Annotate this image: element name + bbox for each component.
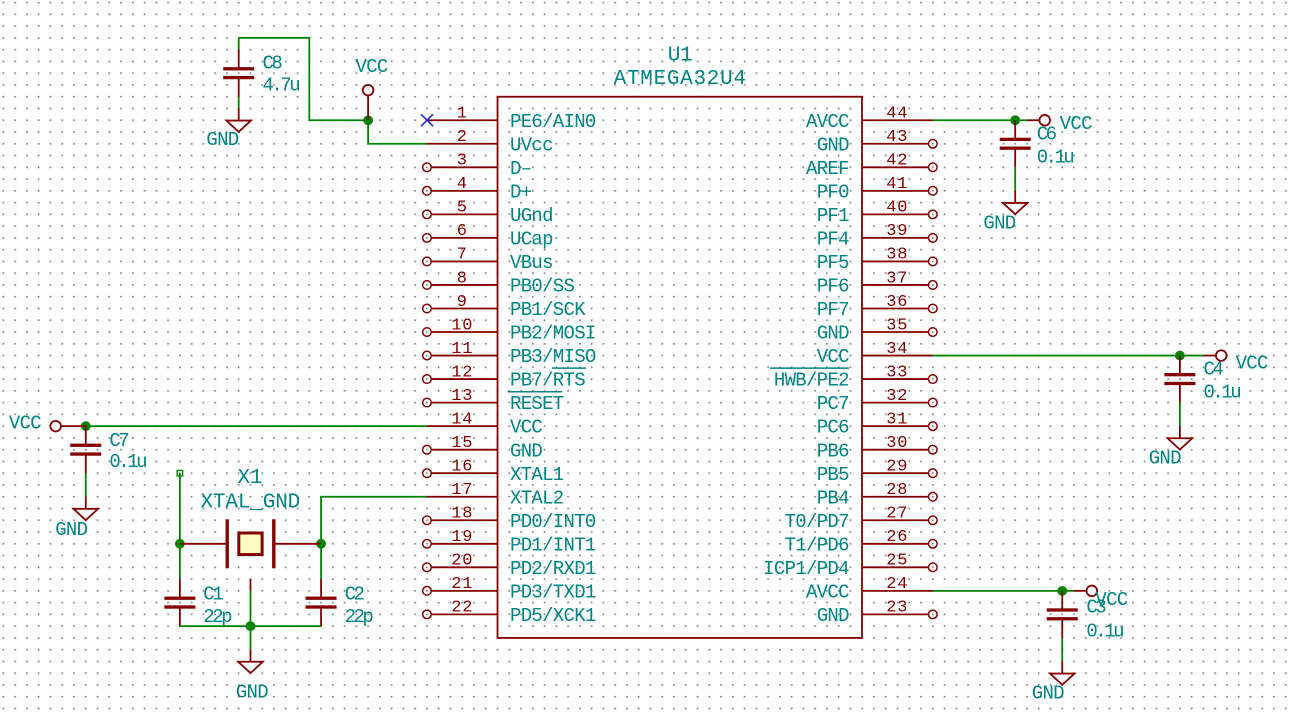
wire [180, 625, 321, 627]
svg-text:PE6/AIN0: PE6/AIN0 [510, 111, 596, 133]
capacitor C2 lead wire [320, 544, 322, 579]
svg-text:UGnd: UGnd [510, 205, 553, 227]
junction [363, 115, 373, 125]
svg-text:23: 23 [886, 599, 908, 618]
pin 20 PD2/RXD1 [423, 552, 596, 580]
label C3 value [1086, 597, 1123, 643]
svg-text:PB7/RTS: PB7/RTS [510, 370, 585, 392]
svg-text:UCap: UCap [510, 229, 553, 251]
pin 7 VBus [423, 246, 553, 274]
pin 23 GND [817, 599, 937, 627]
pin 3 D– [423, 152, 532, 180]
capacitor C6 [1000, 120, 1031, 167]
ground symbol below C3 [1032, 661, 1075, 704]
svg-text:VCC: VCC [817, 346, 849, 368]
svg-text:HWB/PE2: HWB/PE2 [774, 370, 849, 392]
svg-text:UVcc: UVcc [510, 134, 553, 156]
svg-text:PB3/MISO: PB3/MISO [510, 346, 596, 368]
svg-text:10: 10 [451, 316, 473, 335]
pin 30 PB6 [817, 434, 937, 462]
svg-text:26: 26 [886, 528, 908, 547]
junction [1010, 115, 1020, 125]
svg-text:ICP1/PD4: ICP1/PD4 [763, 558, 849, 580]
capacitor C7 [70, 426, 101, 473]
svg-text:PD3/TXD1: PD3/TXD1 [510, 581, 596, 603]
pin 10 PB2/MOSI [423, 316, 596, 344]
svg-text:PD2/RXD1: PD2/RXD1 [510, 558, 596, 580]
pin 27 T0/PD7 [785, 505, 938, 533]
op-amp U1 ATMEGA32U4 body [498, 44, 862, 638]
pin 13 RESET [423, 387, 564, 415]
pin 16 XTAL1 [423, 458, 564, 486]
svg-text:C7: C7 [109, 430, 128, 452]
svg-text:43: 43 [886, 128, 908, 147]
svg-text:T0/PD7: T0/PD7 [785, 511, 849, 533]
svg-text:PC6: PC6 [817, 417, 849, 439]
svg-text:PF5: PF5 [817, 252, 849, 274]
svg-text:AVCC: AVCC [806, 581, 849, 603]
svg-text:ATMEGA32U4: ATMEGA32U4 [614, 68, 747, 91]
wire [933, 355, 1204, 357]
pin 12 PB7/RTS [423, 363, 586, 391]
wire [933, 590, 1074, 592]
pin 29 PB5 [817, 458, 937, 486]
svg-text:XTAL2: XTAL2 [510, 487, 564, 509]
pin 28 PB4 [817, 481, 937, 509]
power symbol VCC near C7 [9, 413, 86, 435]
ground symbol below C4 [1149, 426, 1193, 469]
svg-text:GND: GND [817, 134, 849, 156]
wire crystal gnd pin down [249, 591, 251, 626]
svg-text:AVCC: AVCC [806, 111, 849, 133]
svg-text:6: 6 [457, 222, 468, 241]
svg-text:C2: C2 [345, 584, 365, 606]
ground symbol below C7 [55, 497, 98, 541]
svg-text:VBus: VBus [510, 252, 553, 274]
ground symbol below C8 [206, 108, 251, 151]
svg-text:XTAL_GND: XTAL_GND [200, 491, 300, 514]
power symbol VCC near C3 [1074, 586, 1128, 611]
svg-text:31: 31 [886, 410, 908, 429]
svg-text:AREF: AREF [806, 158, 849, 180]
wire C7 to GND [85, 473, 87, 497]
svg-text:VCC: VCC [356, 56, 388, 78]
svg-text:PF6: PF6 [817, 276, 849, 298]
ground symbol below C6 [983, 191, 1027, 235]
svg-text:VCC: VCC [9, 413, 41, 435]
svg-text:PB5: PB5 [817, 464, 849, 486]
svg-text:1: 1 [457, 105, 468, 124]
pin 35 GND [817, 316, 937, 344]
wire [933, 119, 1027, 121]
ground symbol below crystal [236, 650, 268, 704]
pin 31 PC6 [817, 410, 937, 438]
pin 17 XTAL2 [427, 481, 564, 509]
svg-text:32: 32 [886, 387, 908, 406]
pin 25 ICP1/PD4 [763, 552, 937, 580]
svg-text:20: 20 [451, 552, 473, 571]
pin 40 PF1 [817, 199, 937, 227]
svg-text:0.1u: 0.1u [1037, 147, 1074, 169]
crystal X1 XTAL_GND [180, 467, 321, 591]
svg-text:PB1/SCK: PB1/SCK [510, 299, 586, 321]
label C4 value [1204, 358, 1241, 403]
svg-text:0.1u: 0.1u [1204, 382, 1241, 404]
wire C8 to GND [238, 97, 240, 109]
svg-text:33: 33 [886, 363, 908, 382]
wire C3 to GND [1061, 638, 1063, 662]
pin 1 PE6/AIN0 [427, 105, 596, 133]
svg-text:35: 35 [886, 316, 908, 335]
svg-text:D–: D– [510, 158, 531, 180]
svg-text:8: 8 [457, 269, 468, 288]
svg-text:44: 44 [886, 105, 908, 124]
pin 34 VCC [817, 340, 933, 368]
svg-text:12: 12 [451, 363, 473, 382]
node wire C8 top lead [238, 38, 240, 50]
capacitor C3 [1047, 591, 1078, 638]
svg-text:XTAL1: XTAL1 [510, 464, 564, 486]
pin 44 AVCC [806, 105, 933, 133]
wire [239, 38, 368, 120]
wire C6 to GND [1014, 167, 1016, 191]
svg-text:VCC: VCC [1236, 352, 1268, 374]
pin 32 PC7 [817, 387, 937, 415]
svg-text:U1: U1 [668, 44, 693, 67]
junction [316, 539, 326, 549]
svg-text:5: 5 [457, 199, 468, 218]
svg-text:C6: C6 [1037, 124, 1057, 146]
junction [1057, 586, 1067, 596]
svg-text:GND: GND [1149, 447, 1181, 469]
svg-text:34: 34 [886, 340, 908, 359]
svg-text:11: 11 [451, 340, 473, 359]
power symbol VCC near C6 [1027, 113, 1092, 135]
pin 42 AREF [806, 152, 937, 180]
svg-text:PB0/SS: PB0/SS [510, 276, 575, 298]
svg-text:PF1: PF1 [817, 205, 849, 227]
pin 39 PF4 [817, 222, 937, 250]
svg-text:GND: GND [206, 129, 238, 151]
pin 36 PF7 [817, 293, 937, 321]
svg-text:9: 9 [457, 293, 468, 312]
pin 11 PB3/MISO [423, 340, 596, 368]
svg-text:30: 30 [886, 434, 908, 453]
svg-text:GND: GND [55, 519, 87, 541]
pin 5 UGnd [423, 199, 553, 227]
pin 26 T1/PD6 [785, 528, 938, 556]
svg-text:C4: C4 [1204, 358, 1224, 380]
pin 41 PF0 [817, 175, 937, 203]
label C7 value [109, 430, 146, 473]
svg-text:GND: GND [236, 682, 268, 704]
svg-text:25: 25 [886, 552, 908, 571]
svg-text:24: 24 [886, 575, 908, 594]
svg-text:22p: 22p [345, 606, 374, 628]
svg-text:GND: GND [1032, 682, 1064, 704]
wire to crystal GND [249, 626, 251, 650]
svg-text:PD1/INT1: PD1/INT1 [510, 534, 596, 556]
svg-text:PF7: PF7 [817, 299, 849, 321]
label C8 value [263, 53, 300, 97]
svg-text:GND: GND [983, 212, 1015, 234]
svg-text:GND: GND [817, 605, 849, 627]
pin 9 PB1/SCK [423, 293, 587, 321]
svg-text:GND: GND [817, 323, 849, 345]
wire dangling with end square [177, 470, 183, 543]
wire [86, 425, 427, 427]
svg-text:PF0: PF0 [817, 181, 849, 203]
svg-text:36: 36 [886, 293, 908, 312]
svg-text:0.1u: 0.1u [1086, 620, 1123, 642]
wire [321, 497, 427, 544]
svg-text:C1: C1 [203, 584, 223, 606]
svg-text:18: 18 [451, 505, 473, 524]
pin 18 PD0/INT0 [423, 505, 596, 533]
pin 43 GND [817, 128, 937, 156]
svg-text:PC7: PC7 [817, 393, 849, 415]
svg-text:40: 40 [886, 199, 908, 218]
svg-text:2: 2 [457, 128, 468, 147]
svg-text:PB4: PB4 [817, 487, 849, 509]
svg-text:38: 38 [886, 246, 908, 265]
junction [1175, 351, 1185, 361]
svg-text:29: 29 [886, 458, 908, 477]
junction [81, 421, 91, 431]
svg-text:X1: X1 [237, 467, 262, 490]
svg-text:0.1u: 0.1u [109, 451, 146, 473]
svg-text:RESET: RESET [510, 393, 564, 415]
power symbol VCC near C8 [356, 56, 388, 120]
svg-text:7: 7 [457, 246, 468, 265]
label C1 value [203, 584, 232, 629]
svg-text:VCC: VCC [1060, 113, 1092, 135]
svg-text:13: 13 [451, 387, 473, 406]
svg-text:42: 42 [886, 152, 908, 171]
pin 33 HWB/PE2 [770, 363, 937, 391]
wire C4 to GND [1179, 403, 1181, 427]
svg-text:GND: GND [510, 440, 542, 462]
capacitor C8 [223, 50, 254, 97]
label C2 value [345, 584, 374, 629]
label C6 value [1037, 124, 1074, 169]
svg-text:VCC: VCC [510, 417, 542, 439]
pin 14 VCC [427, 410, 542, 438]
svg-text:16: 16 [451, 458, 473, 477]
capacitor C1 [164, 579, 195, 626]
svg-text:4: 4 [457, 175, 468, 194]
capacitor C1 lead wire [179, 544, 181, 579]
svg-text:41: 41 [886, 175, 908, 194]
pin 38 PF5 [817, 246, 937, 274]
pin 37 PF6 [817, 269, 937, 297]
pin 4 D+ [423, 175, 532, 203]
pin 21 PD3/TXD1 [423, 575, 596, 603]
svg-text:C3: C3 [1086, 597, 1106, 619]
svg-text:37: 37 [886, 269, 908, 288]
svg-text:4.7u: 4.7u [263, 74, 300, 96]
svg-text:C8: C8 [263, 53, 283, 75]
junction [246, 621, 256, 631]
wire [368, 120, 427, 144]
power symbol VCC near C4 [1203, 350, 1268, 374]
svg-text:22p: 22p [203, 606, 232, 628]
pin 22 PD5/XCK1 [423, 599, 596, 627]
pin 8 PB0/SS [423, 269, 575, 297]
svg-text:PD0/INT0: PD0/INT0 [510, 511, 596, 533]
pin 24 AVCC [806, 575, 933, 603]
svg-text:3: 3 [457, 152, 468, 171]
svg-text:PD5/XCK1: PD5/XCK1 [510, 605, 596, 627]
capacitor C2 [306, 579, 337, 626]
svg-text:21: 21 [451, 575, 473, 594]
svg-text:15: 15 [451, 434, 473, 453]
svg-text:14: 14 [451, 410, 473, 429]
pin 2 UVcc [427, 128, 553, 156]
svg-text:39: 39 [886, 222, 908, 241]
svg-text:PB6: PB6 [817, 440, 849, 462]
svg-text:27: 27 [886, 505, 908, 524]
svg-text:T1/PD6: T1/PD6 [785, 534, 850, 556]
capacitor C4 [1164, 356, 1195, 403]
pin 19 PD1/INT1 [423, 528, 596, 556]
svg-text:PB2/MOSI: PB2/MOSI [510, 323, 596, 345]
no-connect X on pin 1 [421, 114, 433, 126]
pin 15 GND [423, 434, 543, 462]
svg-text:22: 22 [451, 599, 473, 618]
svg-text:D+: D+ [510, 181, 532, 203]
junction [175, 539, 185, 549]
pin 6 UCap [423, 222, 553, 250]
svg-text:28: 28 [886, 481, 908, 500]
svg-text:PF4: PF4 [817, 229, 849, 251]
svg-text:19: 19 [451, 528, 473, 547]
svg-text:17: 17 [451, 481, 473, 500]
